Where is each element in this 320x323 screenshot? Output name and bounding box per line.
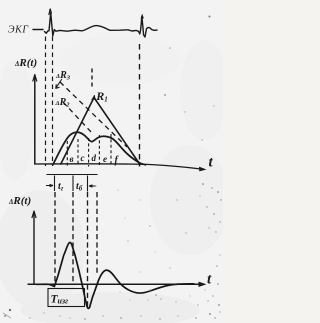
X axis arrowhead xyxy=(199,167,207,172)
dimension top rule xyxy=(47,174,98,176)
flag at R peak 1 xyxy=(49,9,52,15)
steep rising line xyxy=(61,98,94,165)
svg-text:c: c xyxy=(81,153,85,163)
middle graph Y axis xyxy=(34,76,36,165)
bottom dashed vertical 4 xyxy=(96,192,98,276)
svg-text:в: в xyxy=(70,154,74,164)
dashed vertical under QRS1 (right) xyxy=(52,37,54,167)
middle graph X axis xyxy=(34,164,201,169)
bottom dashed vertical 3 xyxy=(87,192,89,308)
left arrow to tг xyxy=(46,184,53,186)
dimension bar mid xyxy=(72,176,74,192)
dashed vertical under QRS1 (left) xyxy=(45,37,47,167)
paper noise specks xyxy=(3,16,222,320)
differentiated rheogram curve xyxy=(36,243,194,309)
bottom X axis arrowhead xyxy=(199,282,207,287)
short dashed vertical at point f xyxy=(110,134,112,166)
Y axis arrowhead xyxy=(33,75,37,82)
paper background xyxy=(0,0,223,323)
short dashed vertical at point b xyxy=(66,141,68,166)
ECG trace xyxy=(45,13,158,38)
rheogram wavy curve xyxy=(53,132,146,165)
dimension bar right xyxy=(87,176,89,192)
bottom Y axis arrowhead xyxy=(32,211,36,218)
right arrow from tб xyxy=(89,185,97,187)
short dashed vertical above apex xyxy=(91,69,93,89)
short dashed vertical at point d xyxy=(88,138,90,167)
short dashed vertical at point c xyxy=(77,139,79,166)
dashed diagonal R3 construction xyxy=(60,82,127,147)
bottom dashed vertical 2 xyxy=(72,192,74,283)
dashed diagonal R2 construction xyxy=(63,102,92,133)
dimension bar left xyxy=(54,176,56,192)
arrow under dR3 label xyxy=(56,80,62,89)
short dashed vertical at point e xyxy=(98,135,100,166)
bottom graph Y axis xyxy=(33,213,35,285)
svg-text:ЭКГ: ЭКГ xyxy=(8,25,29,36)
dashed vertical under QRS2 xyxy=(139,44,141,167)
wire: dash after ECG label xyxy=(33,29,43,31)
Tizg box xyxy=(48,289,85,307)
flag at R peak 2 xyxy=(141,15,143,18)
svg-text:e: e xyxy=(103,154,107,164)
svg-text:d: d xyxy=(92,153,97,163)
bottom dashed vertical 1 xyxy=(54,192,56,283)
bottom graph X axis xyxy=(28,283,201,285)
descending line from apex xyxy=(94,98,140,165)
